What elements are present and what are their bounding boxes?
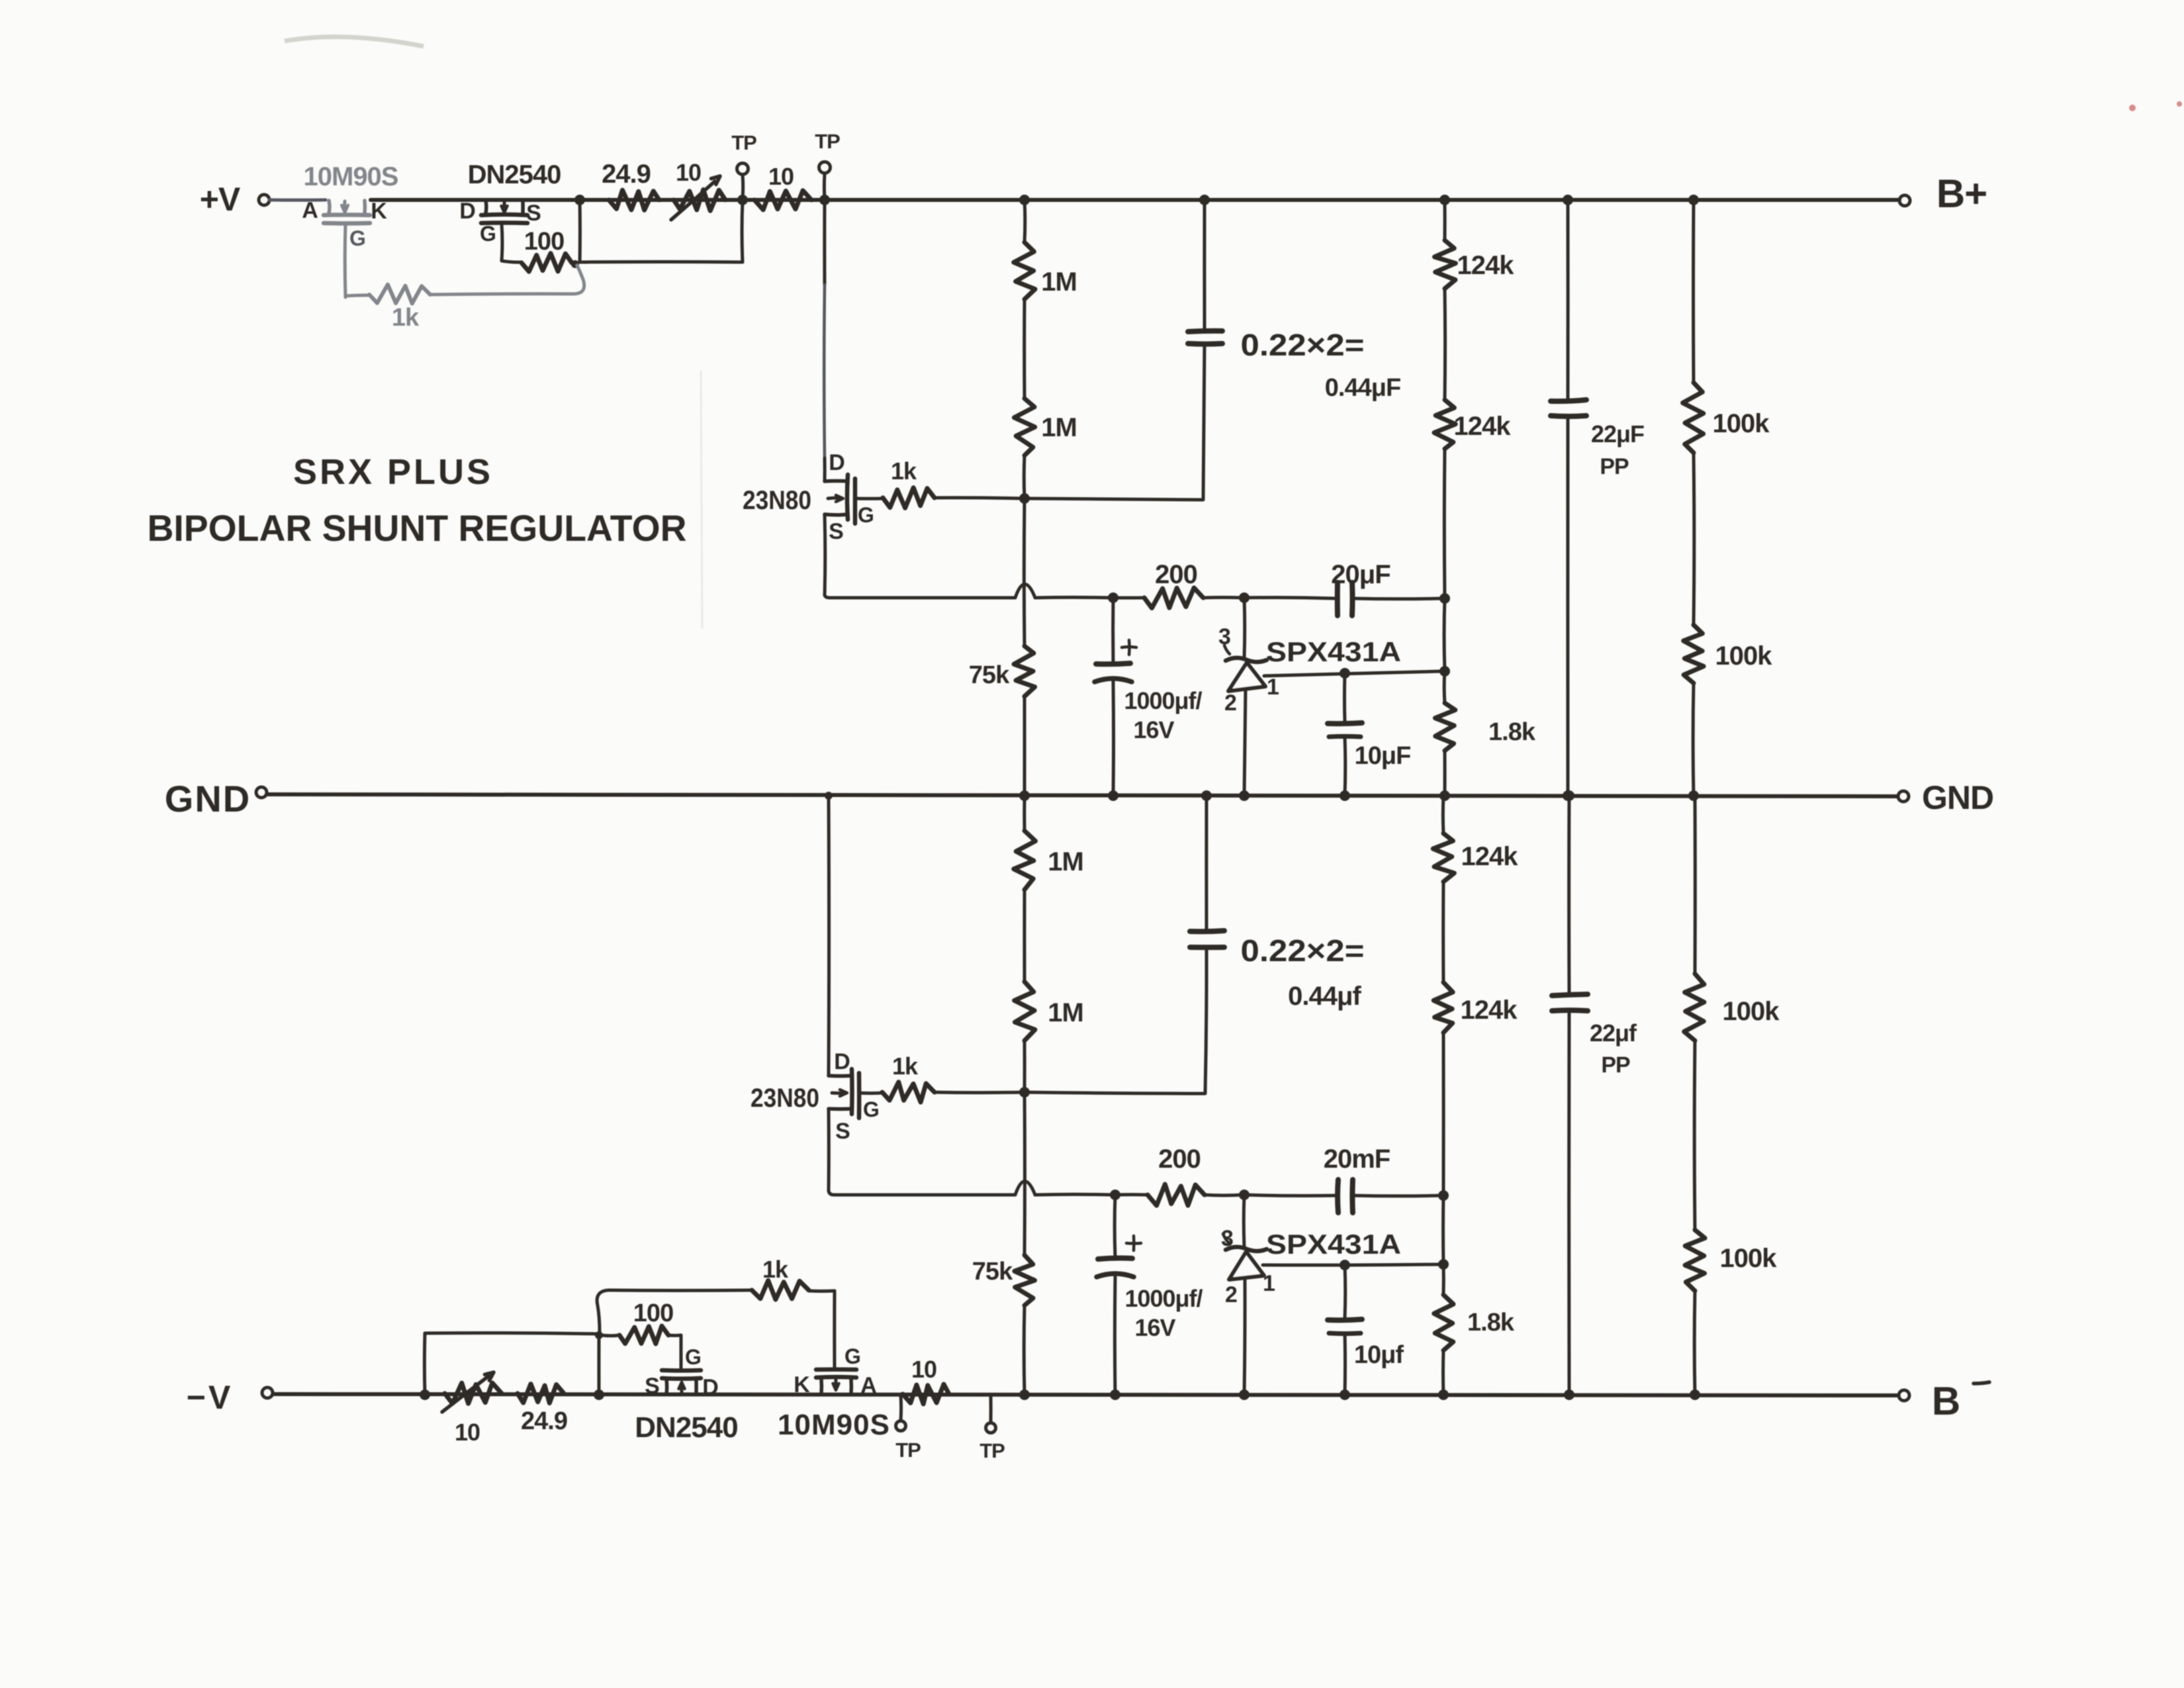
- svg-text:10: 10: [911, 1356, 936, 1383]
- junction node: [1108, 592, 1118, 603]
- wire ref to 10uF: [1343, 673, 1347, 722]
- svg-text:TP: TP: [979, 1439, 1005, 1462]
- resistor 10 (top): [754, 191, 811, 210]
- 1000uF plus sign (bottom): [1126, 1236, 1141, 1250]
- junction node: [1019, 493, 1030, 504]
- TL431 anode wire (bottom): [1244, 1278, 1245, 1395]
- svg-text:1k: 1k: [392, 304, 420, 332]
- svg-text:D: D: [459, 199, 475, 224]
- svg-text:+V: +V: [200, 181, 241, 218]
- svg-text:1k: 1k: [891, 457, 917, 485]
- svg-text:0.22×2=: 0.22×2=: [1241, 328, 1365, 362]
- svg-text:100k: 100k: [1723, 997, 1780, 1026]
- svg-text:16V: 16V: [1133, 716, 1174, 743]
- junction node: [1438, 1389, 1449, 1400]
- current regulator 10M90S (bottom): [816, 1370, 856, 1394]
- wire between 1M: [1023, 299, 1026, 399]
- junction node: [1340, 1389, 1350, 1400]
- junction node: [1108, 790, 1118, 801]
- capacitor 0.22x2 plates (bottom): [1190, 931, 1224, 947]
- svg-text:S: S: [526, 201, 541, 226]
- wire 1k to 1M node: [934, 498, 1023, 498]
- svg-text:10: 10: [455, 1419, 480, 1446]
- capacitor 20mF plates (bottom): [1338, 1180, 1353, 1213]
- svg-text:100k: 100k: [1715, 641, 1773, 671]
- svg-text:100k: 100k: [1720, 1244, 1778, 1273]
- svg-text:75k: 75k: [972, 1258, 1013, 1286]
- capacitor 0.22x2 plates (top): [1188, 331, 1222, 344]
- resistor 124k first (bottom): [1433, 833, 1454, 882]
- test point TP2 stem: [823, 174, 827, 199]
- svg-text:G: G: [858, 503, 874, 527]
- paper smudge: [285, 37, 424, 46]
- junction node: [1438, 1190, 1449, 1201]
- test point TP3 stem: [899, 1395, 903, 1421]
- svg-text:24.9: 24.9: [602, 160, 651, 189]
- wire rail to 1M: [1023, 200, 1027, 242]
- resistor 1M upper (top): [1014, 242, 1035, 299]
- resistor 1M first (bottom): [1014, 831, 1036, 890]
- wire 75k to GND: [1023, 696, 1026, 796]
- svg-text:DN2540: DN2540: [635, 1411, 737, 1444]
- svg-text:B+: B+: [1936, 171, 1987, 216]
- wire 10uF to GND: [1343, 737, 1347, 796]
- junction node: [1239, 790, 1250, 801]
- B- label: [1932, 1379, 1989, 1423]
- svg-text:75k: 75k: [969, 661, 1010, 689]
- svg-text:200: 200: [1158, 1145, 1201, 1174]
- junction node: [1340, 1260, 1350, 1270]
- wire gate to 1k (bottom): [859, 1092, 882, 1096]
- resistor 100k third (bottom): [1684, 974, 1704, 1041]
- capacitor 10uF plates (top): [1328, 723, 1362, 737]
- B- terminal circle: [1899, 1390, 1909, 1401]
- junction node: [1019, 1389, 1030, 1400]
- junction node: [1110, 1190, 1120, 1200]
- svg-text:D: D: [702, 1375, 718, 1400]
- wire 0.22 cap to gate line (bottom): [1205, 947, 1206, 1094]
- junction node: [1340, 790, 1350, 801]
- red speck 2: [2177, 101, 2182, 107]
- svg-text:23N80: 23N80: [743, 486, 811, 515]
- junction node: [1688, 195, 1699, 205]
- +V terminal circle: [259, 195, 269, 205]
- svg-text:K: K: [794, 1372, 810, 1397]
- svg-text:PP: PP: [1601, 1053, 1630, 1078]
- svg-text:10μF: 10μF: [1355, 742, 1411, 770]
- wire 20mF to 124k line (bottom): [1353, 1194, 1442, 1198]
- svg-text:2: 2: [1224, 690, 1236, 716]
- svg-text:10: 10: [676, 159, 701, 186]
- svg-text:200: 200: [1155, 560, 1197, 589]
- test point TP4 circle: [986, 1423, 996, 1433]
- wire source node to ref node: [1443, 598, 1447, 671]
- junction node: [1563, 790, 1573, 801]
- svg-text:−V: −V: [187, 1379, 234, 1416]
- svg-text:D: D: [834, 1049, 850, 1074]
- B+ terminal circle: [1899, 195, 1910, 206]
- trimmer 10 (top): [671, 176, 725, 220]
- wire 200 to TL431 node: [1203, 596, 1243, 600]
- svg-text:S: S: [835, 1119, 850, 1144]
- junction node: [1564, 1389, 1574, 1400]
- resistor 200 (bottom): [1148, 1184, 1205, 1205]
- svg-text:100: 100: [633, 1299, 673, 1327]
- resistor 10 (bottom): [903, 1384, 949, 1404]
- B- rail wire: [273, 1394, 1897, 1395]
- wire +V to 10M90S: [269, 199, 326, 202]
- svg-text:G: G: [863, 1098, 879, 1121]
- svg-text:1.8k: 1.8k: [1488, 718, 1536, 746]
- wire to 200: [1113, 596, 1144, 600]
- wire rail to 124k: [1443, 200, 1447, 240]
- wire loop to TP: [580, 260, 741, 264]
- svg-text:G: G: [480, 222, 496, 246]
- svg-text:SPX431A: SPX431A: [1266, 1229, 1401, 1260]
- wire gate node to 75k: [1023, 498, 1026, 646]
- junction node: [1239, 1389, 1250, 1400]
- depletion MOSFET DN2540 (bottom): [662, 1370, 701, 1394]
- wire between 124k: [1443, 289, 1447, 400]
- svg-text:TP: TP: [731, 131, 756, 154]
- TL431 anode wire (top): [1244, 690, 1246, 796]
- resistor 75k (top): [1014, 646, 1035, 696]
- svg-text:20mF: 20mF: [1324, 1145, 1390, 1174]
- wire ref node to 1.8k (bottom): [1442, 1264, 1445, 1295]
- wire TL431 cathode (top): [1243, 598, 1247, 658]
- test point TP2 circle: [819, 162, 831, 173]
- test point TP1 stem: [741, 175, 745, 199]
- junction node: [1439, 790, 1450, 801]
- wire 100 to DN2540 gate (bottom): [668, 1335, 681, 1368]
- junction node: [1019, 1087, 1030, 1098]
- junction node: [1019, 195, 1030, 205]
- wire GND to 0.22 cap (bottom): [1205, 796, 1208, 929]
- junction node: [1439, 666, 1450, 677]
- svg-text:3: 3: [1221, 1226, 1233, 1251]
- svg-text:GND: GND: [1922, 779, 1993, 816]
- shunt reference SPX431A (top): [1224, 645, 1267, 691]
- junction node: [595, 1331, 603, 1339]
- junction node: [1110, 1389, 1120, 1400]
- junction node: [1688, 790, 1699, 801]
- svg-text:1k: 1k: [762, 1256, 789, 1283]
- svg-text:1000μf/: 1000μf/: [1124, 687, 1202, 714]
- 23N80 source line (bottom): [829, 1191, 1015, 1195]
- resistor 1.8k (top): [1435, 703, 1455, 751]
- svg-text:G: G: [685, 1345, 701, 1369]
- svg-text:1: 1: [1263, 1271, 1275, 1296]
- svg-text:0.22×2=: 0.22×2=: [1241, 933, 1365, 968]
- wire GND to 1M (bottom): [1023, 796, 1026, 831]
- wire rail to 22uF: [1567, 200, 1570, 398]
- wire 75k to B- rail: [1023, 1305, 1026, 1395]
- wire between 100k (bottom): [1693, 1041, 1697, 1230]
- resistor 1.8k (bottom): [1434, 1295, 1453, 1350]
- svg-text:124k: 124k: [1457, 251, 1515, 280]
- svg-text:S: S: [829, 519, 843, 544]
- 23N80 source wire down (bottom): [827, 1109, 831, 1191]
- wire ref to 10uf (bottom): [1343, 1265, 1347, 1318]
- test point TP1 circle: [737, 164, 749, 175]
- B+ rail wire: [371, 198, 1899, 202]
- wire DN2540 gate to 100: [502, 261, 522, 262]
- resistor 1M second (bottom): [1015, 982, 1035, 1041]
- svg-text:124k: 124k: [1461, 996, 1518, 1025]
- junction node: [571, 260, 579, 268]
- 23N80 drain wire (top): [824, 200, 825, 481]
- wire loop top (bottom input): [425, 1333, 596, 1334]
- wire source node to ref node (bottom): [1441, 1196, 1445, 1264]
- svg-text:124k: 124k: [1461, 842, 1519, 871]
- power MOSFET 23N80 (bottom): [829, 1069, 859, 1118]
- resistor 100k first (top): [1683, 383, 1704, 453]
- wire junction riser (bottom input): [597, 1335, 600, 1393]
- svg-text:100k: 100k: [1713, 409, 1770, 438]
- paper fold line: [701, 371, 702, 629]
- wire junction up (bottom input): [423, 1333, 427, 1395]
- svg-text:10M90S: 10M90S: [778, 1409, 890, 1441]
- 23N80 drain wire (bottom): [827, 796, 831, 1076]
- junction node: [1199, 195, 1210, 205]
- svg-text:16V: 16V: [1134, 1314, 1175, 1341]
- wire ref node to 1.8k: [1443, 671, 1447, 703]
- wire 22uF to GND: [1566, 416, 1569, 796]
- wire 200 to TL431 node (bottom): [1205, 1194, 1243, 1197]
- test point TP3 circle: [896, 1421, 906, 1431]
- svg-text:1: 1: [1267, 675, 1279, 700]
- junction node: [1439, 593, 1450, 604]
- wire 1k to 1M node (bottom): [934, 1091, 1023, 1095]
- GND terminal circle right: [1898, 791, 1909, 802]
- wire to 200 (bottom): [1115, 1193, 1148, 1196]
- shunt reference SPX431A (bottom): [1223, 1234, 1267, 1280]
- wire 1.8k to B-: [1441, 1350, 1445, 1395]
- wire 22uf to B- (bottom): [1567, 1011, 1570, 1395]
- svg-text:BIPOLAR SHUNT REGULATOR: BIPOLAR SHUNT REGULATOR: [148, 507, 687, 549]
- resistor 100 (bottom): [619, 1326, 668, 1344]
- junction node: [1439, 195, 1450, 205]
- svg-text:SRX PLUS: SRX PLUS: [293, 452, 493, 492]
- svg-text:1M: 1M: [1041, 267, 1077, 297]
- wire loop riser: [741, 201, 745, 262]
- wire hop over 1M line: [1015, 585, 1035, 598]
- junction node: [594, 1389, 604, 1400]
- power MOSFET 23N80 (top): [825, 475, 855, 524]
- svg-text:G: G: [844, 1344, 860, 1368]
- svg-text:20μF: 20μF: [1331, 560, 1390, 589]
- svg-text:GND: GND: [165, 778, 251, 820]
- capacitor 10uf plates (bottom): [1328, 1319, 1362, 1334]
- junction node: [1564, 790, 1574, 801]
- wire 0.22 cap to gate line: [1203, 344, 1205, 500]
- svg-text:1M: 1M: [1041, 413, 1077, 442]
- svg-text:S: S: [645, 1374, 659, 1399]
- svg-text:K: K: [371, 199, 387, 224]
- junction node: [825, 792, 833, 800]
- wire 1M to gate node: [1023, 455, 1026, 498]
- junction node: [574, 195, 585, 205]
- wire 1000uF top (bottom): [1113, 1195, 1117, 1257]
- svg-text:10: 10: [768, 163, 794, 190]
- capacitor 1000uF plates (top): [1095, 663, 1132, 682]
- GND rail wire: [267, 794, 1897, 796]
- resistor 1k feedback (bottom): [597, 1280, 835, 1332]
- junction node: [737, 195, 748, 205]
- svg-text:A: A: [302, 198, 318, 223]
- DN2540 gate lead: [500, 224, 504, 261]
- svg-text:1000μf/: 1000μf/: [1124, 1285, 1203, 1312]
- 1000uF plus sign: [1122, 640, 1136, 655]
- wire gate node to 75k (bottom): [1023, 1092, 1026, 1255]
- junction node: [1438, 1259, 1449, 1270]
- wire junction down: [578, 200, 582, 262]
- svg-text:SPX431A: SPX431A: [1266, 636, 1401, 667]
- svg-text:G: G: [349, 226, 365, 250]
- wire 10uf to B- (bottom): [1343, 1333, 1347, 1395]
- wire hop over 1M line (bottom): [1015, 1182, 1035, 1196]
- wire hop to 1000uF node (bottom): [1035, 1193, 1114, 1197]
- svg-text:22μf: 22μf: [1590, 1019, 1637, 1047]
- junction node: [420, 1389, 430, 1400]
- svg-text:3: 3: [1218, 624, 1230, 649]
- depletion MOSFET DN2540 (top): [481, 201, 527, 223]
- svg-text:10M90S: 10M90S: [304, 162, 398, 191]
- wire 124k to source node (bottom): [1442, 1033, 1445, 1196]
- wire 1.8k to GND: [1443, 751, 1447, 796]
- junction node: [1019, 790, 1030, 801]
- resistor 100 (top): [522, 254, 572, 272]
- junction node: [819, 195, 830, 205]
- junction node: [1340, 668, 1350, 679]
- wire gate to 1k: [855, 497, 883, 500]
- capacitor 1000uF plates (bottom): [1097, 1258, 1134, 1277]
- wire TL431 node to 20uF: [1244, 598, 1335, 598]
- capacitor 20uF plates (top): [1338, 583, 1353, 616]
- svg-text:PP: PP: [1600, 454, 1629, 479]
- wire 1M to gate node (bottom): [1023, 1041, 1026, 1092]
- svg-text:22μF: 22μF: [1591, 420, 1644, 447]
- TL431 ref wire (top): [1264, 671, 1443, 676]
- junction node: [1239, 592, 1250, 603]
- test point TP4 stem: [989, 1395, 993, 1423]
- wire 1000uF bottom: [1112, 682, 1116, 796]
- wire hop to 1000uF node: [1035, 596, 1112, 600]
- resistor 24.9 (top): [609, 190, 659, 210]
- capacitor 22uf PP plates (bottom): [1552, 994, 1588, 1011]
- wire GND to 100k (bottom): [1694, 796, 1697, 974]
- svg-text:TP: TP: [815, 130, 840, 153]
- junction node: [1690, 1389, 1700, 1400]
- wire 20uF to 124k line: [1352, 597, 1443, 601]
- resistor 124k second (bottom): [1433, 982, 1453, 1033]
- svg-text:23N80: 23N80: [751, 1084, 819, 1113]
- resistor 124k second (top): [1434, 400, 1455, 449]
- junction node: [1239, 1190, 1250, 1200]
- svg-text:1M: 1M: [1048, 847, 1083, 876]
- 10M90S gate lead: [343, 224, 347, 297]
- resistor 100k second (top): [1684, 625, 1704, 683]
- resistor 100k fourth (bottom): [1685, 1230, 1705, 1291]
- GND terminal circle left: [256, 787, 267, 798]
- svg-text:24.9: 24.9: [521, 1407, 567, 1435]
- wire 1000uF top: [1111, 598, 1115, 662]
- resistor 75k (bottom): [1015, 1255, 1035, 1305]
- svg-text:100: 100: [524, 228, 564, 256]
- svg-text:DN2540: DN2540: [468, 160, 561, 189]
- svg-text:B: B: [1932, 1379, 1960, 1423]
- svg-text:124k: 124k: [1454, 412, 1512, 441]
- wire TL431 cathode (bottom): [1242, 1195, 1246, 1247]
- svg-text:1k: 1k: [892, 1053, 919, 1080]
- svg-text:D: D: [829, 450, 844, 475]
- resistor 1k gate (top): [883, 488, 934, 508]
- resistor 1k gate (bottom): [882, 1082, 934, 1102]
- capacitor 22uF PP plates (top): [1551, 400, 1586, 416]
- junction node: [1563, 195, 1573, 205]
- wire 100k to B- (bottom): [1693, 1291, 1697, 1395]
- wire 100k to GND: [1692, 683, 1696, 796]
- wire between 1M (bottom): [1023, 890, 1026, 982]
- wire GND to 22uf (bottom): [1567, 796, 1570, 993]
- wire gate line to cap corner (bottom): [1024, 1092, 1205, 1094]
- resistor 1k feedback (top, pencil): [345, 265, 584, 304]
- svg-text:TP: TP: [895, 1438, 921, 1462]
- svg-text:10μf: 10μf: [1354, 1341, 1404, 1369]
- 10M90S gate lead (bottom): [833, 1291, 836, 1370]
- svg-text:0.44μf: 0.44μf: [1288, 982, 1361, 1011]
- wire 1000uF bottom (bottom): [1113, 1277, 1117, 1395]
- trimmer 10 (bottom): [442, 1372, 502, 1412]
- svg-text:1.8k: 1.8k: [1467, 1309, 1515, 1336]
- wire between 124k (bottom): [1441, 882, 1445, 982]
- 23N80 source wire down: [823, 514, 827, 595]
- resistor 124k first (top): [1435, 240, 1456, 289]
- wire TL431 node to 20mF (bottom): [1244, 1195, 1336, 1196]
- wire junction to 100 (bottom): [602, 1334, 619, 1338]
- junction node: [1201, 790, 1212, 801]
- TL431 ref wire (bottom): [1263, 1264, 1442, 1265]
- resistor 200 (top): [1144, 588, 1203, 608]
- wire GND to 124k (bottom): [1441, 796, 1445, 833]
- wire gate line to cap corner: [1024, 498, 1203, 500]
- red speck 1: [2129, 105, 2136, 111]
- -V terminal circle: [262, 1387, 273, 1398]
- resistor 24.9 (bottom): [518, 1384, 564, 1403]
- wire between 100k: [1692, 453, 1696, 625]
- svg-text:A: A: [860, 1373, 876, 1398]
- resistor 1M lower (top): [1014, 399, 1034, 455]
- current regulator 10M90S (top): [324, 201, 370, 223]
- wire 124k to source node: [1443, 449, 1447, 598]
- 23N80 source line (top): [825, 595, 1015, 598]
- svg-text:0.44μF: 0.44μF: [1325, 374, 1400, 402]
- wire rail to 0.22 cap: [1203, 200, 1206, 330]
- wire rail to 100k: [1692, 200, 1695, 383]
- svg-text:1M: 1M: [1048, 998, 1083, 1027]
- svg-text:2: 2: [1225, 1282, 1237, 1307]
